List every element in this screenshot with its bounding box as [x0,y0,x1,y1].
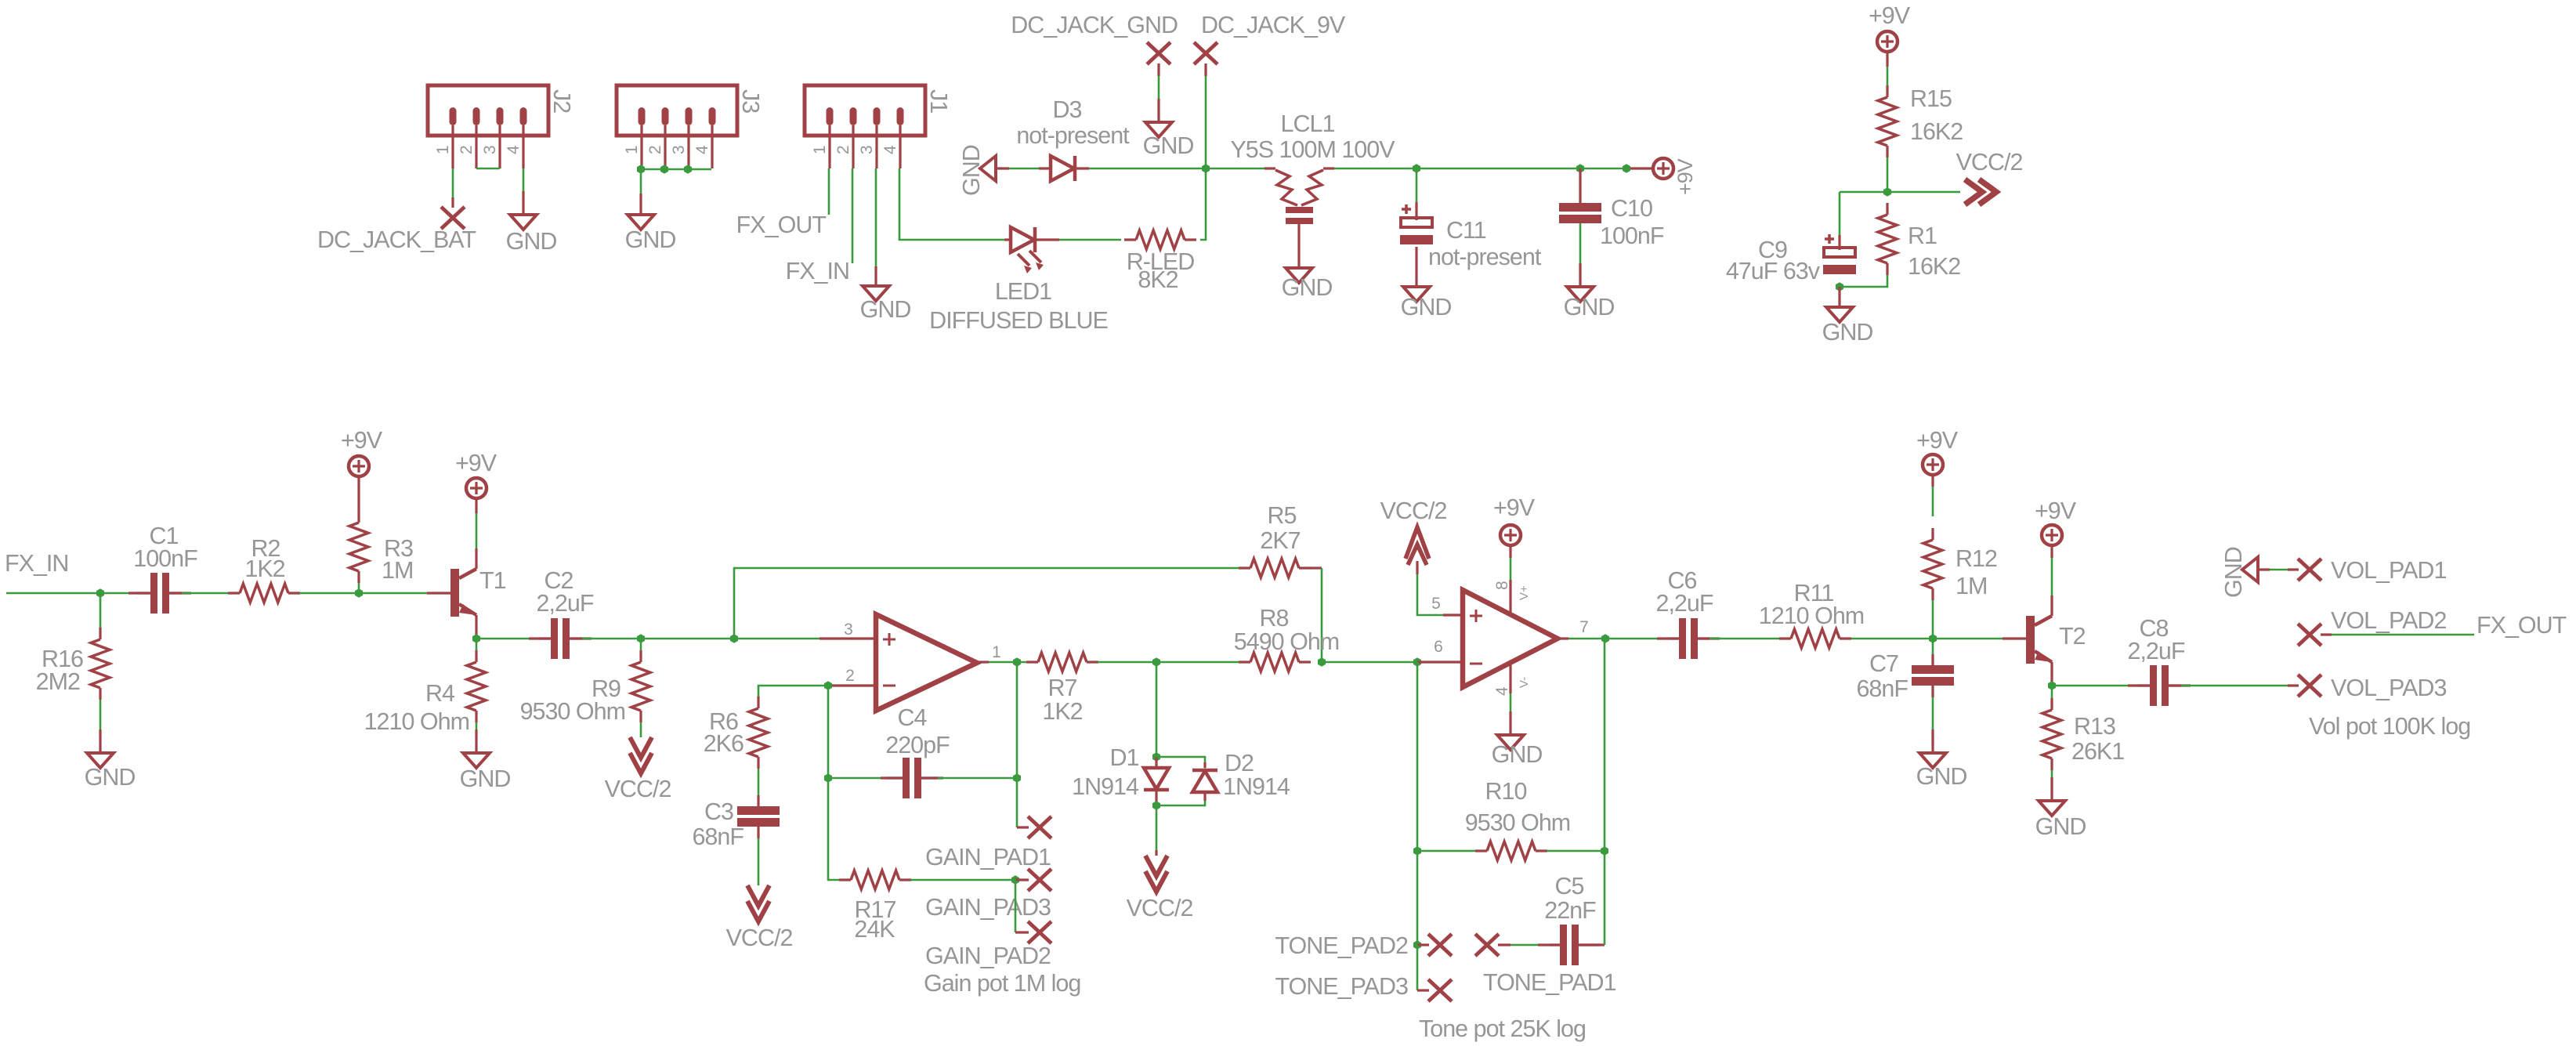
wire LED1 to R-LED [1036,238,1121,241]
supply VCC/2 arrow right [1956,149,2023,204]
inductor LCL1 [1230,110,1395,224]
svg-text:C10: C10 [1611,195,1652,222]
svg-text:+9V: +9V [2035,498,2077,524]
wire to TONE_PAD3 [1416,945,1419,990]
wire C5 to right riser [1579,851,1605,945]
resistor R11 1210 Ohm [1759,580,1864,648]
svg-text:VCC/2: VCC/2 [1956,149,2023,176]
wire op-amp pin2 [828,684,876,686]
resistor R6 2K6 [704,697,768,769]
svg-text:2: 2 [458,145,476,154]
svg-text:2: 2 [845,667,855,685]
supply +9V at R3 [341,427,383,476]
svg-text:2K6: 2K6 [704,730,743,757]
svg-text:GND: GND [1401,294,1452,320]
svg-text:47uF 63v: 47uF 63v [1726,258,1821,284]
wire C9 to GND [1838,287,1840,307]
svg-text:5490 Ohm: 5490 Ohm [1234,628,1339,655]
resistor R5 2K7 [1239,502,1311,577]
net label FX_OUT (output) [2477,612,2567,639]
wire base to T2 [1933,638,2026,640]
svg-text:2M2: 2M2 [36,668,80,695]
svg-text:8K2: 8K2 [1138,266,1178,293]
supply +9V terminal [1653,158,1697,195]
wire R7 to diode junction [1098,661,1240,664]
svg-text:7: 7 [1579,618,1589,636]
supply +9V at R12 [1916,427,1959,475]
wire junction to R9 [640,639,642,651]
svg-text:4: 4 [505,145,523,154]
node pin7 junction [1601,634,1609,643]
wire op-amp2 output [1558,637,1681,639]
svg-text:1210 Ohm: 1210 Ohm [1759,603,1864,629]
wire op-amp output [977,661,1028,663]
node VCC/2 junction [1883,187,1891,197]
svg-text:GND: GND [1143,132,1194,159]
node DC_JACK_GND [1011,12,1178,64]
resistor R3 1M [349,511,413,584]
svg-text:24K: 24K [854,916,895,943]
svg-text:4: 4 [881,145,899,154]
supply VCC/2 below C3 [726,885,793,951]
node GAIN_PAD2 [925,921,1051,969]
svg-text:R5: R5 [1268,502,1297,529]
connector J1 [805,85,952,168]
wire junction to VCC/2 arrow [1887,191,1960,194]
svg-text:FX_OUT: FX_OUT [2477,612,2567,639]
wire C2 to R9 junction [570,637,734,639]
transistor T2 [2026,616,2086,664]
svg-text:1: 1 [992,643,1001,661]
svg-text:4: 4 [1493,686,1511,696]
net label FX_IN [786,258,849,284]
wire pin4 to GND [1509,663,1511,735]
svg-text:4: 4 [693,145,711,154]
svg-text:R12: R12 [1956,545,1997,572]
svg-text:GND: GND [506,228,557,255]
svg-text:26K1: 26K1 [2071,738,2124,765]
resistor R13 26K1 [2042,698,2124,770]
wire C7 to GND [1931,686,1934,753]
wire D2 bottom link [1156,801,1205,805]
wire diodes to VCC/2 [1156,805,1158,856]
svg-text:16K2: 16K2 [1908,253,1960,280]
svg-text:GND: GND [1822,319,1873,346]
svg-text:C7: C7 [1869,650,1898,677]
capacitor C4 220pF [881,704,950,798]
svg-text:FX_IN: FX_IN [5,550,68,577]
node FX_IN junction [96,588,104,598]
svg-text:VOL_PAD3: VOL_PAD3 [2331,675,2446,701]
connector J3 [617,85,764,168]
svg-text:5: 5 [1431,595,1441,613]
svg-text:100nF: 100nF [1600,223,1664,249]
svg-text:GAIN_PAD2: GAIN_PAD2 [925,943,1051,969]
wire DC_JACK_GND to GND [1157,63,1160,122]
svg-text:GAIN_PAD3: GAIN_PAD3 [925,894,1051,921]
svg-text:1K2: 1K2 [244,556,284,582]
svg-text:R8: R8 [1260,605,1289,632]
svg-text:R1: R1 [1908,223,1937,249]
svg-text:68nF: 68nF [1856,675,1908,702]
svg-text:2: 2 [834,145,852,154]
wire R3 to junction [358,583,360,593]
wire R8 junction to pin6 junction [1322,661,1417,664]
node rail at C10 [1576,164,1584,173]
svg-text:8: 8 [1493,581,1511,590]
wire junction to C9 [1840,192,1887,250]
svg-text:+9V: +9V [1493,494,1536,521]
svg-text:Vol pot 100K log: Vol pot 100K log [2309,713,2470,740]
node DC_JACK_BAT [317,207,476,253]
wire junction to C4 [828,777,903,780]
svg-text:R4: R4 [425,680,455,707]
svg-text:+9V: +9V [341,427,383,454]
svg-text:GND: GND [2220,547,2247,598]
label Tone pot [1419,1015,1586,1042]
svg-text:VOL_PAD2: VOL_PAD2 [2331,607,2446,634]
svg-text:J1: J1 [925,89,952,113]
svg-text:3: 3 [858,145,876,154]
wire GND to D3 [996,167,1051,169]
svg-text:GND: GND [2035,813,2086,840]
svg-text:9530 Ohm: 9530 Ohm [1465,809,1570,836]
svg-text:1: 1 [623,145,641,154]
wire +9V to T1 collector [475,499,477,569]
ground at C9 [1822,307,1873,346]
svg-text:1N914: 1N914 [1072,773,1139,800]
svg-text:+9V: +9V [1869,2,1911,29]
node C4 left junction [824,773,832,783]
node T2 base junction [1929,634,1937,643]
svg-text:FX_OUT: FX_OUT [736,212,827,238]
ground at LCL1 [1282,268,1333,301]
svg-text:9530 Ohm: 9530 Ohm [520,698,625,725]
wire R10 to right riser [1547,850,1605,852]
resistor R7 1K2 [1026,653,1098,725]
wire R17 to GAIN_PAD3 junction [911,879,1015,881]
connector J2 [428,85,575,168]
op-amp U1A [844,614,1001,711]
node R5/R8 junction [1318,657,1326,667]
svg-text:T1: T1 [479,567,506,594]
wire R10 left lead [1417,850,1476,852]
svg-text:3: 3 [670,145,688,154]
label Gain pot [924,970,1080,997]
node GAIN_PAD3 junction [1011,875,1019,885]
ground at C10 [1564,287,1615,320]
svg-text:GND: GND [1492,741,1543,768]
node T2 emitter junction [2048,681,2056,690]
svg-text:6: 6 [1434,638,1443,656]
svg-text:68nF: 68nF [692,823,743,850]
wire J2 pin1 to DC_JACK_BAT [452,168,454,208]
capacitor C8 2,2uF [2128,615,2191,706]
svg-text:Tone pot 25K log: Tone pot 25K log [1419,1015,1586,1042]
svg-text:3: 3 [481,145,499,154]
wire rail to C11 [1416,168,1418,220]
wire R9 to VCC/2 [640,722,642,737]
resistor R15 16K2 [1878,85,1963,157]
node output junction [1013,657,1021,667]
net label FX_OUT [736,212,827,238]
node D1 top [1152,752,1160,762]
op-amp U1B [1431,581,1589,696]
wire output riser [1016,662,1018,778]
svg-text:TONE_PAD1: TONE_PAD1 [1483,969,1616,996]
svg-text:100nF: 100nF [133,545,197,572]
node rail at C11 [1413,164,1420,173]
wire emitter to C8 [2052,685,2150,687]
capacitor C5 22nF [1538,873,1601,965]
wire J1 pin3 to GND [875,168,877,286]
node VOL_PAD3 [2298,675,2446,701]
svg-text:V-: V- [1518,677,1531,688]
wire left riser to TONE_PAD2 [1416,851,1419,945]
capacitor C2 2,2uF [529,567,594,659]
wire R4 to GND [476,722,478,753]
wire pin6 [1417,661,1463,663]
ground at C11 [1401,287,1452,320]
wire R12 to junction [1932,600,1934,639]
svg-text:GND: GND [1916,763,1967,790]
svg-text:GND: GND [460,765,511,792]
svg-text:VCC/2: VCC/2 [605,776,671,802]
node GAIN_PAD3 [925,869,1051,921]
wire C3 to VCC/2 [757,827,759,885]
svg-text:1K2: 1K2 [1042,698,1082,725]
wire junction to C7 [1932,639,1934,665]
node R10 left junction [1413,846,1421,856]
ground at D3 anode [958,145,996,196]
svg-text:C3: C3 [704,798,733,825]
svg-text:J3: J3 [737,89,764,113]
resistor R2 1K2 [228,535,300,603]
svg-text:GND: GND [85,764,136,791]
node R10 right junction [1601,846,1608,856]
node T1 emitter junction [472,634,480,643]
LED LED1 [929,227,1108,334]
wire R2 to T1 base [299,592,450,595]
node rail at +9V terminal [1623,164,1630,173]
svg-text:not-present: not-present [1016,122,1130,149]
wire R15 to junction [1887,157,1889,192]
wire inverting riser [828,686,839,880]
ground at pin4 [1492,735,1543,768]
svg-text:TONE_PAD3: TONE_PAD3 [1275,973,1408,1000]
node TONE_PAD1 [1475,934,1616,996]
svg-text:Y5S 100M 100V: Y5S 100M 100V [1230,136,1395,163]
node TONE_PAD2 [1275,932,1452,959]
capacitor C11 not-present [1400,204,1542,270]
resistor R-LED 8K2 [1124,230,1196,293]
wire C8 to VOL_PAD3 [2169,684,2299,686]
node R3 junction [355,588,363,598]
svg-text:220pF: 220pF [885,732,950,758]
diode D2 1N914 [1192,750,1290,801]
svg-text:FX_IN: FX_IN [786,258,849,284]
capacitor C6 2,2uF [1656,567,1720,659]
svg-text:VCC/2: VCC/2 [1127,895,1193,921]
svg-text:LCL1: LCL1 [1281,110,1335,137]
transistor T1 [450,567,506,617]
wire C10 to GND [1579,223,1582,287]
wire GND to VOL_PAD1 [2258,568,2299,570]
svg-text:1N914: 1N914 [1223,773,1290,800]
wire VOL_PAD2 to FX_OUT [2321,633,2474,635]
node D1 bottom [1152,801,1160,810]
wire R5 to R8 junction [1310,568,1322,662]
svg-text:C4: C4 [898,704,928,731]
wire J1 pin2 FX_IN [852,168,854,263]
wire FX_IN to C1 [6,592,149,595]
svg-text:2: 2 [646,145,664,154]
wire +9V to R3 [357,477,360,512]
svg-text:1: 1 [811,145,829,154]
wire R6 to C3 [758,769,760,806]
node pin2 junction [824,681,832,690]
node R9 junction [637,634,645,643]
wire J1 pin4 to LED1 [899,168,1011,240]
wire R13 to GND [2051,770,2053,801]
wire J1 pin1 FX_OUT [828,168,830,215]
wire T2 emitter [2050,662,2053,686]
svg-text:2,2uF: 2,2uF [1656,590,1713,617]
node TONE_PAD3 [1275,973,1452,1001]
svg-text:2K7: 2K7 [1260,527,1300,554]
node 9V rail junction [1202,164,1210,173]
node feedback junction [730,634,738,643]
wire C11 to GND [1415,247,1417,287]
svg-text:+9V: +9V [1916,427,1959,454]
net label FX_IN (input) [5,550,68,577]
svg-text:+9V: +9V [1673,158,1697,195]
svg-text:1M: 1M [382,557,413,584]
svg-text:3: 3 [844,621,853,639]
svg-text:LED1: LED1 [995,278,1051,305]
resistor R12 1M [1923,528,1997,600]
wire VCC/2 to pin5 [1417,561,1463,615]
svg-text:not-present: not-present [1428,244,1542,270]
supply +9V at R15 [1869,2,1911,52]
resistor R17 24K [839,870,911,943]
svg-text:VCC/2: VCC/2 [726,925,793,951]
wire pin6 junction down to R10 [1416,662,1419,851]
wire R16 to GND [99,700,102,753]
wire junction to R13 [2051,686,2053,699]
svg-text:DIFFUSED BLUE: DIFFUSED BLUE [929,307,1108,334]
wire C4 to output riser [921,776,1017,779]
svg-text:+9V: +9V [455,450,497,476]
svg-text:V+: V+ [1518,585,1531,600]
capacitor C1 100nF [128,523,197,613]
svg-text:GND: GND [1282,274,1333,301]
resistor R9 9530 Ohm [520,650,650,725]
svg-text:VCC/2: VCC/2 [1380,498,1447,524]
wire R11 to T2 base junction [1851,638,1933,640]
wire main to op-amp pin3 [734,638,876,640]
svg-text:R10: R10 [1485,778,1527,805]
wire J2 pins 2-3 bridge [476,168,500,170]
node VOL_PAD1 [2298,557,2446,584]
ground at R16 [85,753,136,791]
resistor R16 2M2 [36,628,110,700]
svg-text:DC_JACK_9V: DC_JACK_9V [1201,12,1346,38]
wire +9V to pin8 [1509,546,1511,614]
wire C6 to R11 [1699,637,1779,639]
svg-text:DC_JACK_BAT: DC_JACK_BAT [317,226,476,253]
svg-text:1: 1 [434,145,452,154]
svg-text:R13: R13 [2074,713,2115,740]
supply VCC/2 below R9 [605,737,671,802]
capacitor C3 68nF [692,798,780,850]
svg-text:D3: D3 [1053,96,1082,123]
svg-text:1M: 1M [1956,573,1987,599]
svg-text:R15: R15 [1910,85,1952,112]
wire junction down to R-LED [1200,168,1206,240]
svg-text:GAIN_PAD1: GAIN_PAD1 [925,844,1051,870]
wire D2 top link [1156,757,1205,768]
svg-text:GND: GND [860,296,911,323]
node C4 right junction [1013,773,1021,783]
svg-text:D2: D2 [1225,750,1254,776]
wire J3 pin1 to GND [640,169,642,215]
node GAIN_PAD1 [925,816,1051,870]
wire junction to C2 [476,638,551,640]
resistor R1 16K2 [1878,203,1960,280]
wire right riser to pin7 [1604,639,1606,851]
svg-text:D1: D1 [1110,744,1139,771]
node C9 bottom junction [1836,282,1843,291]
wire rail to C10 [1579,168,1581,203]
supply VCC/2 above pin5 [1380,498,1447,565]
svg-text:C5: C5 [1555,873,1584,899]
node pin6 junction [1413,657,1421,667]
svg-text:1210 Ohm: 1210 Ohm [364,708,469,735]
node diode junction [1152,657,1160,667]
resistor R10 9530 Ohm [1465,778,1570,860]
wire LCL1 tap to GND [1297,224,1300,268]
ground at DC_JACK_GND [1143,122,1194,159]
ground at C7 [1916,753,1967,790]
ground at J2 pin4 [506,215,557,255]
wire to GAIN_PAD2 [1015,880,1017,932]
supply VCC/2 below diodes [1127,856,1193,921]
ground at J1 pin3 [860,286,911,323]
ground at VOL_PAD1 [2220,547,2258,598]
svg-text:R7: R7 [1048,675,1077,701]
wire pin2 junction to R6 [758,686,828,697]
wire J3 pins 1-4 bridge [637,165,711,174]
wire T1 emitter to junction [475,615,477,639]
ground at R4 [460,753,511,792]
supply +9V at T1 [455,450,497,498]
wire DC_JACK_9V down to rail [1204,63,1207,168]
svg-text:J2: J2 [548,89,575,113]
svg-text:Gain pot 1M log: Gain pot 1M log [924,970,1080,997]
resistor R8 5490 Ohm [1234,605,1339,671]
wire feedback riser [734,568,1240,639]
ground at R13 [2035,801,2086,840]
wire D3 to rail junction [1076,167,1206,169]
svg-text:2,2uF: 2,2uF [2128,638,2185,664]
svg-text:C11: C11 [1446,217,1486,244]
wire C1 to R2 [170,592,229,594]
supply +9V at pin8 [1493,494,1536,545]
svg-text:22nF: 22nF [1544,897,1596,924]
svg-text:T2: T2 [2059,623,2086,650]
svg-text:GND: GND [625,226,676,253]
